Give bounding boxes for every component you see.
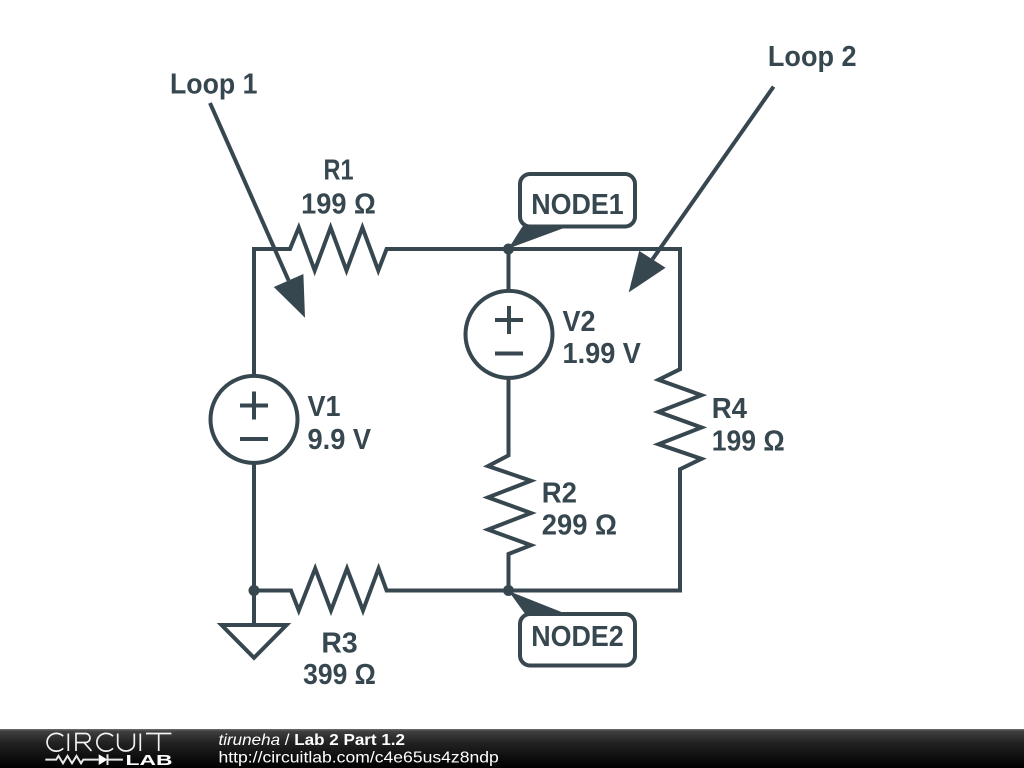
svg-text:tiruneha / Lab 2 Part 1.2: tiruneha / Lab 2 Part 1.2	[219, 732, 406, 749]
svg-text:Loop 2: Loop 2	[768, 41, 857, 73]
svg-text:299 Ω: 299 Ω	[542, 510, 617, 542]
svg-text:9.9 V: 9.9 V	[308, 424, 372, 456]
svg-text:R4: R4	[712, 393, 747, 425]
svg-text:http://circuitlab.com/c4e65us4: http://circuitlab.com/c4e65us4z8ndp	[219, 749, 499, 766]
svg-text:399 Ω: 399 Ω	[303, 659, 376, 691]
svg-text:1.99 V: 1.99 V	[563, 338, 642, 370]
svg-text:R3: R3	[321, 628, 357, 660]
svg-text:V2: V2	[563, 306, 596, 338]
svg-text:R2: R2	[542, 477, 577, 509]
svg-text:V1: V1	[308, 391, 341, 423]
svg-text:199 Ω: 199 Ω	[301, 188, 376, 220]
svg-text:Loop 1: Loop 1	[170, 69, 258, 101]
svg-text:R1: R1	[324, 155, 354, 187]
svg-text:LAB: LAB	[126, 752, 173, 768]
svg-text:NODE1: NODE1	[531, 189, 624, 221]
svg-text:199 Ω: 199 Ω	[712, 425, 785, 457]
svg-text:NODE2: NODE2	[531, 621, 624, 653]
